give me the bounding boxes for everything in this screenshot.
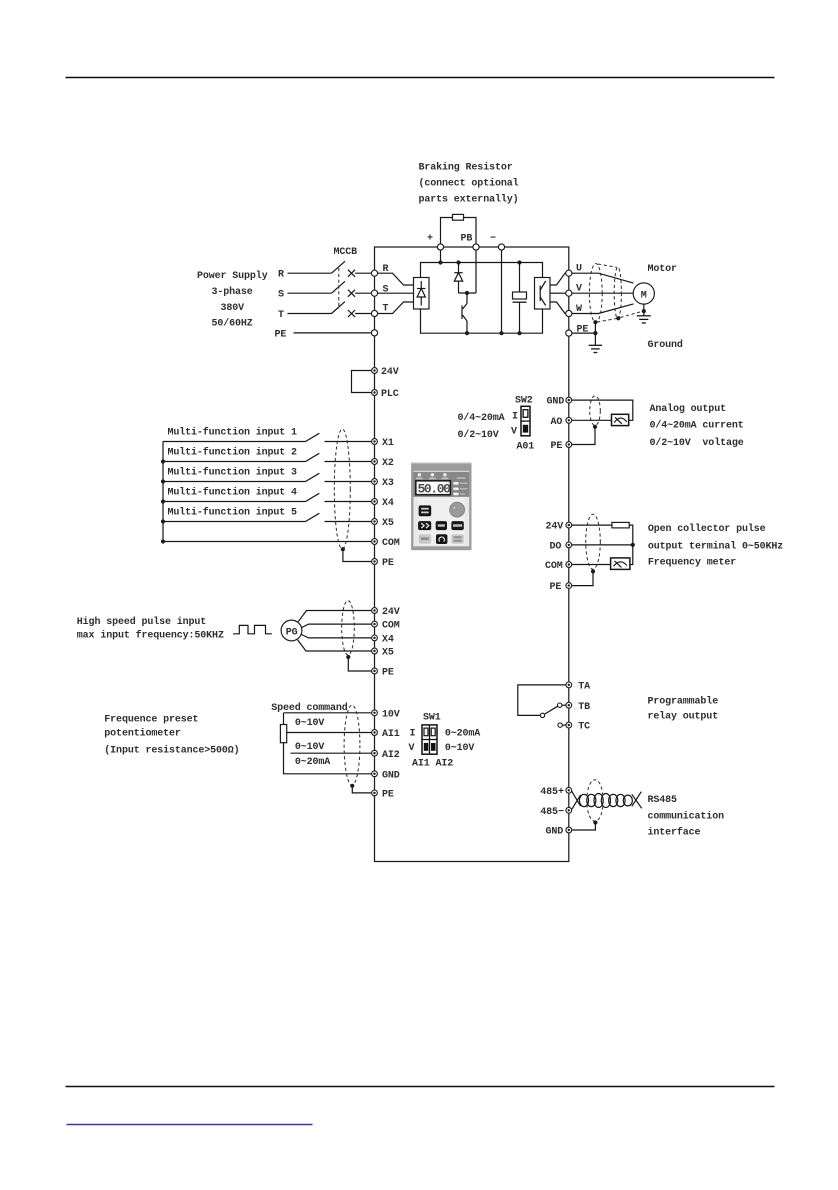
pg shield node <box>346 655 350 659</box>
terminal COM pg <box>372 621 378 627</box>
dc plus rail <box>421 263 543 278</box>
svg-text:Speed command: Speed command <box>271 702 348 714</box>
dip switch SW1 <box>422 725 437 754</box>
label SW1 <box>423 713 441 724</box>
svg-text:0~20mA: 0~20mA <box>445 729 480 740</box>
label 0~20mA <box>295 757 330 768</box>
terminal COM <box>372 539 378 545</box>
pulse shield drain <box>572 571 593 585</box>
label AI1 <box>382 729 400 740</box>
terminal PE left <box>371 330 377 336</box>
wire X4 left <box>163 501 306 503</box>
label AI1 AI2 <box>412 759 453 770</box>
label V (SW2) <box>511 427 517 438</box>
svg-text:0~20mA: 0~20mA <box>295 757 330 768</box>
svg-text:Frequency meter: Frequency meter <box>648 557 736 568</box>
wire W jog <box>550 302 566 314</box>
switch blade X4 <box>306 493 320 501</box>
label minus <box>490 234 496 245</box>
terminal AI2 <box>372 750 378 756</box>
junction - rail <box>499 331 503 335</box>
breaker x mark T <box>348 310 355 317</box>
svg-text:A01: A01 <box>517 441 535 452</box>
speed shield ellipse <box>344 705 360 785</box>
485 shield ellipse <box>587 780 603 822</box>
pulse train symbol <box>233 625 272 633</box>
junction bus COM <box>161 539 165 543</box>
footnote link rule <box>67 1124 313 1126</box>
wire R to terminal <box>355 272 371 274</box>
wire PG to X4 <box>302 635 372 638</box>
label T (supply) <box>278 310 284 321</box>
terminal X2 <box>372 459 378 465</box>
multi-function input 2 caption <box>168 447 298 459</box>
label SW2 <box>515 396 533 407</box>
svg-text:SW2: SW2 <box>515 396 533 407</box>
keypad ENTER button <box>451 521 463 530</box>
label COM pg <box>382 621 400 632</box>
svg-text:GND: GND <box>546 827 564 838</box>
label W <box>576 304 582 315</box>
input shield drain wire <box>343 549 372 561</box>
keypad LED 3 <box>441 473 448 479</box>
svg-text:M: M <box>641 291 647 302</box>
keypad LED 1 <box>416 473 423 479</box>
wire AO to meter <box>572 419 612 421</box>
label PE pulse <box>550 582 562 593</box>
svg-text:T: T <box>383 304 389 315</box>
wire PG to COM <box>302 624 372 627</box>
pg shield ellipse <box>342 601 355 655</box>
wire X1 right <box>325 441 372 443</box>
label 0~10V ai1 <box>295 718 325 729</box>
frequency meter <box>611 558 630 570</box>
motor cable shield ellipse B <box>614 267 621 319</box>
svg-text:PLC: PLC <box>381 389 399 400</box>
inverter IGBT module <box>535 278 551 310</box>
shield bottom dashed link <box>597 319 617 323</box>
label Ground <box>648 339 683 351</box>
note: braking resistor caption <box>419 162 519 206</box>
svg-text:PE: PE <box>275 330 287 341</box>
wire X2 right <box>325 461 372 463</box>
svg-text:communication: communication <box>648 810 725 822</box>
wire + to rail <box>440 250 442 262</box>
svg-text:PB: PB <box>461 234 473 245</box>
label GND speed <box>382 770 400 781</box>
junction PE shield <box>593 331 597 335</box>
junction brake node <box>465 291 469 295</box>
svg-text:24V: 24V <box>546 522 564 533</box>
wire 24V-PLC strap <box>352 371 372 393</box>
terminal 10V <box>372 710 378 716</box>
wire X5 right <box>325 521 372 523</box>
terminal V <box>566 290 572 296</box>
wire W to motor <box>572 304 634 314</box>
label + <box>427 234 433 245</box>
inverter box <box>375 247 569 862</box>
wire COM to meter <box>572 564 611 566</box>
label MCCB <box>334 247 358 258</box>
svg-text:Frequence preset: Frequence preset <box>104 715 198 726</box>
label 10V <box>382 709 400 720</box>
svg-text:X4: X4 <box>382 635 394 646</box>
label PE analog <box>551 441 563 452</box>
label PE right <box>577 325 589 336</box>
pullup resistor R1 <box>612 522 629 528</box>
keypad STOP button <box>436 534 447 544</box>
dip switch SW2 <box>521 406 530 436</box>
label PE digital <box>382 558 394 569</box>
svg-text:T: T <box>278 310 284 321</box>
label T inside <box>383 304 389 315</box>
wire V to motor <box>572 292 633 294</box>
svg-text:GND: GND <box>547 397 565 408</box>
multi-function input 4 caption <box>168 487 298 499</box>
twisted pair braid <box>579 794 632 808</box>
terminal 24V pulse <box>566 522 572 528</box>
label I (SW1) <box>410 729 416 740</box>
wire U jog <box>550 273 566 285</box>
label TA <box>578 682 590 693</box>
svg-text:PE: PE <box>577 325 589 336</box>
encoder PG <box>281 620 302 641</box>
svg-text:AI2: AI2 <box>382 750 400 761</box>
label 485- <box>540 807 564 818</box>
wire AI1 row <box>287 732 372 734</box>
terminal T <box>371 310 377 316</box>
terminal X5 pg <box>372 648 378 654</box>
speed shield drain <box>352 786 371 793</box>
junction bus X2 <box>161 459 165 463</box>
terminal GND speed <box>372 771 378 777</box>
terminal PE pg <box>372 668 378 674</box>
input common bus <box>162 442 164 542</box>
wire PE supply <box>294 332 372 334</box>
wire PG to X5 <box>298 640 372 651</box>
switch blade X2 <box>306 453 320 461</box>
label DO <box>550 542 562 553</box>
svg-text:Ground: Ground <box>648 339 683 351</box>
label PE (supply) <box>275 330 287 341</box>
label R inside <box>383 264 389 275</box>
wire X3 right <box>325 481 372 483</box>
wire T to terminal <box>355 313 371 315</box>
label PE speed <box>382 790 394 801</box>
terminal S <box>371 290 377 296</box>
wire PE to shield <box>572 332 596 334</box>
svg-text:0/2~10V: 0/2~10V <box>458 429 499 441</box>
svg-text:50/60HZ: 50/60HZ <box>212 318 253 330</box>
label U <box>576 264 582 275</box>
terminal X4 <box>372 499 378 505</box>
wire R to breaker <box>288 272 332 274</box>
svg-text:485+: 485+ <box>540 787 564 798</box>
keypad PRG/ESC button <box>419 505 432 516</box>
terminal GND 485 <box>566 827 572 833</box>
braking resistor loop wire <box>441 218 453 245</box>
svg-text:(connect optional: (connect optional <box>419 178 519 190</box>
bottom rule <box>66 1086 775 1088</box>
breaker blade R <box>332 261 346 273</box>
svg-text:TA: TA <box>578 682 590 693</box>
label PB <box>461 234 473 245</box>
power supply caption <box>197 270 268 330</box>
label 24V pg <box>382 607 400 618</box>
label AO <box>551 417 563 428</box>
label X2 <box>382 458 394 469</box>
motor ground wire <box>643 304 645 316</box>
terminal TB <box>566 702 572 708</box>
multi-function input 3 caption <box>168 467 298 479</box>
svg-text:X5: X5 <box>382 648 394 659</box>
svg-text:I: I <box>410 729 416 740</box>
rs485 caption <box>648 795 725 839</box>
wire U to motor <box>572 273 634 283</box>
twisted pair end X <box>632 792 642 809</box>
top rule <box>66 77 775 79</box>
terminal U <box>566 270 572 276</box>
label X5 pg <box>382 648 394 659</box>
shield node B <box>616 316 620 320</box>
shield node A <box>593 320 597 324</box>
svg-text:interface: interface <box>648 827 701 839</box>
relay TC stub <box>562 724 566 726</box>
svg-text:V: V <box>511 427 517 438</box>
open collector caption <box>648 523 783 569</box>
svg-text:High speed pulse input: High speed pulse input <box>77 616 207 628</box>
label 0/2~10V <box>458 429 499 441</box>
wire R jog to rectifier <box>378 273 414 285</box>
wire 10V row <box>284 712 372 714</box>
terminal + <box>437 244 443 250</box>
svg-text:0/4~20mA current: 0/4~20mA current <box>650 419 744 431</box>
svg-text:−: − <box>490 234 496 245</box>
svg-text:AO: AO <box>551 417 563 428</box>
relay pivot contact <box>540 713 544 717</box>
wire 24V to resistor <box>572 524 612 526</box>
wire S to rectifier <box>378 292 414 294</box>
svg-text:GND: GND <box>382 770 400 781</box>
svg-text:Motor: Motor <box>648 264 678 275</box>
svg-text:AI1 AI2: AI1 AI2 <box>412 759 453 770</box>
terminal COM pulse <box>566 562 572 568</box>
label S (supply) <box>278 290 284 301</box>
analog shield drain <box>572 427 595 445</box>
keypad shift button <box>418 521 431 530</box>
breaker blade S <box>332 281 346 293</box>
terminal 485- <box>566 807 572 813</box>
svg-text:50.00: 50.00 <box>418 482 452 497</box>
label GND analog <box>547 397 565 408</box>
junction motor ground <box>642 309 646 313</box>
svg-text:Multi-function input 5: Multi-function input 5 <box>168 507 298 519</box>
terminal R <box>371 270 377 276</box>
label TB <box>578 702 590 713</box>
label X4 pg <box>382 635 394 646</box>
svg-text:Multi-function input 4: Multi-function input 4 <box>168 487 298 499</box>
braking resistor RB <box>453 214 464 220</box>
dc minus rail <box>421 309 543 333</box>
analog shield ellipse <box>590 396 601 426</box>
terminal TA <box>566 682 572 688</box>
wire diode to PB node <box>459 292 477 294</box>
pg shield drain <box>348 657 371 671</box>
relay blade <box>545 706 558 714</box>
svg-text:X4: X4 <box>382 498 394 509</box>
wire DO row <box>572 544 633 546</box>
svg-text:RS485: RS485 <box>648 795 678 806</box>
svg-text:380V: 380V <box>221 303 245 314</box>
terminal DO <box>566 542 572 548</box>
junction cap top <box>517 260 521 264</box>
wire T jog to rectifier <box>378 302 414 314</box>
label R (supply) <box>278 270 284 281</box>
relay TC contact <box>558 723 562 727</box>
svg-text:PE: PE <box>550 582 562 593</box>
terminal PLC <box>372 390 378 396</box>
breaker linkage dashed <box>338 268 340 309</box>
svg-text:+: + <box>427 234 433 245</box>
485 shield node <box>593 820 597 824</box>
svg-text:TB: TB <box>578 702 590 713</box>
terminal PE digital <box>372 559 378 565</box>
svg-text:Braking Resistor: Braking Resistor <box>419 162 513 174</box>
label COM <box>382 538 400 549</box>
svg-text:24V: 24V <box>382 607 400 618</box>
label V <box>576 284 582 295</box>
wire 10V to pot <box>283 713 285 725</box>
label 0~10V sw1 <box>445 743 475 754</box>
svg-text:0~10V: 0~10V <box>295 742 325 753</box>
svg-text:PE: PE <box>382 790 394 801</box>
svg-text:3-phase: 3-phase <box>212 286 253 298</box>
label 0~20mA sw1 <box>445 729 480 740</box>
terminal 24V <box>372 368 378 374</box>
terminal GND analog <box>566 397 572 403</box>
breaker x mark S <box>348 290 355 297</box>
junction bus X3 <box>161 479 165 483</box>
relay TB contact <box>558 703 562 707</box>
svg-text:X3: X3 <box>382 478 394 489</box>
terminal 24V pg <box>372 608 378 614</box>
svg-text:V: V <box>409 743 415 754</box>
label X3 <box>382 478 394 489</box>
terminal X3 <box>372 479 378 485</box>
label 485+ <box>540 787 564 798</box>
wire COM row <box>163 541 372 543</box>
input shield node <box>341 547 345 551</box>
label AO1 <box>517 441 535 452</box>
svg-text:S: S <box>383 285 389 296</box>
junction brake emitter <box>465 331 469 335</box>
svg-text:AI1: AI1 <box>382 729 400 740</box>
relay caption <box>648 696 719 723</box>
wire resistor to PB <box>464 218 477 245</box>
keypad LED 2 <box>429 473 436 479</box>
twisted pair lead B <box>572 795 581 809</box>
label PE pg <box>382 668 394 679</box>
label 24V pulse <box>546 522 564 533</box>
label AI2 <box>382 750 400 761</box>
wire pot to GND row <box>284 743 372 774</box>
svg-text:0/4~20mA: 0/4~20mA <box>458 412 505 424</box>
multi-function input 1 caption <box>168 427 298 439</box>
svg-text:Multi-function input 2: Multi-function input 2 <box>168 447 298 459</box>
switch blade X1 <box>306 433 320 441</box>
label 24V <box>381 367 399 378</box>
keypad LCD 50.00 <box>416 481 451 497</box>
wire - down <box>501 250 503 333</box>
svg-text:TC: TC <box>578 722 590 733</box>
wire DO node to meter <box>629 545 633 565</box>
terminal X5 <box>372 519 378 525</box>
svg-text:SW1: SW1 <box>423 713 441 724</box>
junction brake diode top <box>456 260 460 264</box>
wire X5 left <box>163 521 306 523</box>
PE ground drop wire <box>594 333 596 345</box>
svg-text:PE: PE <box>382 668 394 679</box>
wire X1 left <box>163 441 306 443</box>
svg-text:max input frequency:50KHZ: max input frequency:50KHZ <box>77 629 224 641</box>
relay TB stub <box>562 704 566 706</box>
svg-text:S: S <box>278 290 284 301</box>
junction DO node <box>631 543 635 547</box>
junction cap bottom <box>517 331 521 335</box>
keypad STOP/RESET button <box>451 534 463 544</box>
keypad JOG button <box>436 521 447 530</box>
wire resistor to DO node <box>629 525 633 545</box>
svg-text:Open collector pulse: Open collector pulse <box>648 523 766 535</box>
analog output caption <box>650 403 744 449</box>
svg-text:X5: X5 <box>382 518 394 529</box>
svg-text:PE: PE <box>551 441 563 452</box>
junction bus X5 <box>161 519 165 523</box>
svg-text:COM: COM <box>382 538 400 549</box>
svg-text:10V: 10V <box>382 709 400 720</box>
svg-text:Analog output: Analog output <box>650 403 727 415</box>
svg-text:Multi-function input 3: Multi-function input 3 <box>168 467 298 479</box>
terminal AI1 <box>372 730 378 736</box>
input shield ellipse <box>334 429 350 549</box>
svg-text:output terminal 0~50KHz: output terminal 0~50KHz <box>648 541 783 553</box>
shield top dashed link <box>598 264 617 267</box>
wire S to breaker <box>288 292 332 294</box>
dc bus capacitor C1 <box>513 263 527 334</box>
keypad corner text <box>457 477 466 479</box>
keypad knob <box>450 502 465 517</box>
breaker x mark R <box>348 270 355 277</box>
svg-text:(Input resistance>500Ω): (Input resistance>500Ω) <box>104 745 239 757</box>
wire X4 right <box>325 501 372 503</box>
shield dashed bond to motor ground <box>620 311 642 317</box>
terminal TC <box>566 722 572 728</box>
label PLC <box>381 389 399 400</box>
svg-text:485−: 485− <box>540 807 564 818</box>
junction + rail <box>438 260 442 264</box>
485 shield drain <box>572 823 596 831</box>
svg-text:24V: 24V <box>381 367 399 378</box>
frequency preset caption <box>104 715 239 757</box>
svg-text:DO: DO <box>550 542 562 553</box>
label COM pulse <box>545 561 563 572</box>
terminal PE pulse <box>566 583 572 589</box>
label S inside <box>383 285 389 296</box>
svg-text:Programmable: Programmable <box>648 696 719 708</box>
multi-function input 5 caption <box>168 507 298 519</box>
label V (SW1) <box>409 743 415 754</box>
svg-text:COM: COM <box>382 621 400 632</box>
